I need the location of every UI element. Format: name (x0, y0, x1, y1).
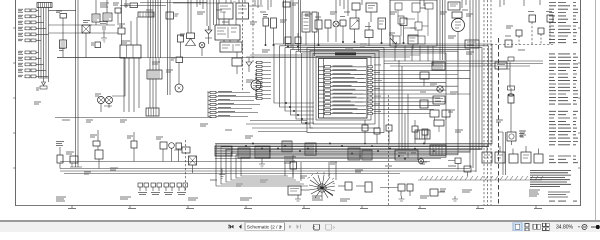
resistor R3 (285, 37, 291, 47)
wire pair down right (499, 132, 506, 175)
ring bus loop 2 (221, 46, 489, 184)
control unit A6 (215, 19, 240, 40)
ring rect 7 (307, 48, 384, 133)
connector block XB3 (255, 146, 270, 158)
connector block XB8 (430, 145, 446, 155)
component row mid-bottom B24 (422, 129, 428, 144)
junction dots bus band (245, 102, 425, 160)
horn H1 (180, 0, 196, 46)
note text right mid (520, 131, 526, 137)
connector block XB7 (362, 150, 372, 160)
switch S21 (325, 20, 331, 42)
text label bm1 (284, 157, 296, 163)
connector header X1 (37, 3, 52, 8)
switch row S9 (18, 63, 44, 66)
dashed crosslink (491, 44, 553, 46)
connector pair XP4 (177, 183, 188, 195)
relay K5 (60, 40, 67, 58)
switch row S2 (18, 15, 41, 18)
wire column left of horn (168, 0, 171, 95)
switch row S1 (18, 9, 39, 12)
prev page button (239, 225, 242, 229)
connector X31 (356, 182, 372, 192)
sensor G10 (380, 184, 413, 196)
relay K8 (236, 0, 249, 19)
ground G22 (295, 195, 301, 201)
facing mode button (533, 224, 540, 229)
ECU pin rows (319, 59, 367, 119)
relay K2 (92, 14, 100, 25)
diode D4 (118, 24, 125, 45)
fuse F14 (178, 35, 184, 57)
cylinder sensor G8 (508, 88, 514, 125)
band drop wires to splice (285, 162, 336, 181)
relay K3 (103, 13, 112, 25)
bottom connector band bus (60, 144, 492, 162)
component block B3 (82, 21, 90, 58)
ring bus loop 6 (241, 53, 446, 176)
sensor cluster LB2 (90, 130, 103, 169)
ring bus loop 2 left edge (280, 46, 315, 107)
switch row S8 (18, 57, 41, 60)
ladder wires right of ECU (372, 71, 470, 114)
top link wires (120, 2, 263, 6)
ECU main box U1 (319, 59, 368, 119)
wire verticals mid top (336, 0, 348, 42)
connector X21 hatched (415, 130, 430, 139)
fuse panel top right F20 (390, 0, 437, 46)
ECU right stub pins (368, 66, 373, 115)
lamp E8 (437, 86, 443, 92)
motor M3 (175, 84, 183, 92)
connector X20 hatched (432, 62, 445, 70)
lamp E5 (199, 42, 205, 56)
sensor G11 (430, 189, 446, 196)
top edge stubs (197, 0, 540, 10)
connector X5 hatched (147, 58, 162, 79)
wire tall left pair (76, 0, 79, 167)
transistor Q2 (389, 33, 396, 48)
relay LB4 (156, 137, 174, 162)
relay K9 (220, 40, 242, 52)
viewer separator line (0, 220, 600, 222)
valve Y2 (350, 18, 359, 42)
component row mid-bottom B20 (362, 120, 368, 143)
relay cluster BM2 (290, 155, 297, 177)
single page mode button (active) (513, 223, 522, 231)
fuse panel drops (395, 46, 433, 66)
small comps right of fan (448, 158, 461, 170)
wire links left bus to center (49, 10, 119, 33)
right window edge line (595, 0, 596, 220)
chassis dashed center-bottom (388, 95, 390, 205)
lamp cluster E1 (95, 94, 105, 112)
top small boxes central (283, 2, 298, 7)
svg-text:34.80%: 34.80% (556, 225, 574, 231)
wire risers to box row (487, 146, 539, 154)
ring rect 9 (313, 54, 375, 125)
fuse F22 (420, 72, 429, 86)
wire junction row (90, 24, 115, 26)
distribution bus extra wires (246, 56, 410, 58)
continuous facing mode button (543, 223, 550, 230)
connector pair XP1 (138, 183, 149, 195)
sensor B8 (340, 17, 346, 43)
sensor B15 (538, 28, 544, 45)
motor M4 (452, 19, 465, 61)
viewer toolbar background (0, 222, 600, 232)
ECU title bar (335, 52, 356, 55)
sensor LB5 (176, 143, 182, 162)
relay K13 (452, 12, 462, 18)
trunk dashed C3 (490, 0, 492, 205)
relay K7 (218, 0, 233, 19)
ring bus loop 6 left edge (302, 53, 315, 123)
long bottom crosslink wires (60, 169, 476, 174)
fuel pump M2 (246, 72, 261, 98)
connector above G8 (508, 57, 514, 61)
module A9 (400, 18, 407, 44)
junction dots row (265, 41, 405, 48)
sheet left border (15, 0, 17, 206)
harness splice fan W1 (308, 172, 336, 199)
connector pair XP3 (164, 183, 175, 195)
sensor B9 (365, 22, 373, 46)
ring bus loop 4 (231, 49, 470, 180)
lamp E9 (333, 21, 339, 27)
central feed wire pair 2 (291, 0, 293, 49)
wire right single (507, 62, 510, 88)
top distribution bus wires (57, 55, 420, 58)
module A10 (408, 35, 418, 49)
trunk dashed C1 (483, 0, 485, 205)
component row mid-bottom B21 (374, 128, 380, 144)
connector block XB6 (348, 148, 360, 160)
wire verticals top mid (207, 0, 217, 30)
module A17 (495, 62, 507, 69)
ring bus loop 4 left edge (291, 49, 315, 115)
top strip module A20 (115, 8, 121, 25)
wire bus center-left (148, 0, 161, 58)
dashed boundary LB (185, 140, 187, 190)
lamp on band E12 (418, 158, 423, 163)
crossed box LB6 (189, 156, 197, 173)
sensor B13 (546, 12, 553, 45)
connector block XB2 (238, 148, 250, 158)
ring rect 10 (316, 57, 371, 121)
small box above cylinder (508, 86, 515, 90)
central feed wire pair 3 (299, 0, 301, 53)
sheet bottom border (16, 205, 581, 207)
sensor pair B5 (263, 15, 269, 46)
page combo box (245, 223, 285, 230)
switch row S6 (18, 39, 41, 42)
sensor cluster LB1 (56, 142, 64, 169)
right small box row RB (482, 152, 543, 163)
pin feed row group left of rings (255, 61, 271, 99)
sensor cluster bottom-left G5 (66, 152, 82, 167)
connector block XB1 (215, 146, 232, 156)
connector X30 (338, 182, 352, 190)
ring bus loop 3 left edge (285, 48, 314, 111)
next page button (disabled) (289, 225, 292, 229)
wires X5 down (150, 79, 156, 108)
module A14 (433, 96, 445, 104)
zoom out button (582, 225, 587, 230)
ring bus loop 5 left edge (296, 51, 314, 119)
ground G21 (259, 158, 265, 168)
ground G23 (399, 196, 405, 201)
module A8 (378, 18, 386, 43)
component row mid-bottom B23 (412, 120, 418, 144)
wire list text column (549, 3, 578, 202)
component row mid-bottom B22 (386, 125, 392, 144)
sensor S30 on dashed (505, 36, 512, 47)
module boxes above valve (352, 3, 377, 22)
switch row S10 (18, 69, 46, 72)
top feed stubs cluster (96, 0, 137, 45)
switch row S3 (18, 21, 44, 24)
ECU right outside labels (374, 65, 382, 112)
chassis dashed line 1 (242, 0, 244, 90)
connector strip X41 (312, 12, 317, 56)
node KLT label (59, 49, 65, 51)
top edge labels (146, 8, 468, 12)
component header A3 (138, 12, 154, 17)
ring bus loop 1 left edge (274, 44, 314, 103)
ring bus loop 5 (236, 51, 458, 178)
diode D6 (205, 26, 212, 44)
chassis dashed line 2 (252, 0, 254, 62)
capacitor C2 (100, 22, 108, 43)
sensor B14 (516, 30, 522, 45)
module A12 (465, 40, 479, 48)
reservoir B10 (232, 52, 242, 74)
text labels bottom row (56, 190, 472, 201)
scattered label smudges (34, 12, 525, 186)
diode D8 (246, 58, 252, 72)
pin ladder A9 lower-left (208, 91, 260, 118)
top strip labels left (100, 3, 119, 7)
switch S15 (171, 57, 183, 84)
connector block XB4 (282, 141, 292, 152)
right bus horizontals (384, 61, 543, 66)
title block small text (529, 190, 570, 197)
ground G20 (219, 169, 225, 179)
sensor pair B6 (271, 18, 277, 45)
title block text lines (530, 171, 571, 187)
central feed wire pair 1 (284, 0, 286, 46)
lamp cluster E2 (104, 97, 113, 109)
module LB7 (174, 147, 190, 153)
small comp X33 (464, 166, 471, 176)
ring bus loop 3 (226, 48, 482, 182)
under-border zone labels (68, 208, 542, 210)
ground G24 (452, 196, 458, 201)
fuse F12 (91, 42, 101, 48)
splice label box W1a (288, 186, 309, 195)
trunk dashed C2 (487, 0, 489, 205)
fuse F10 (56, 11, 67, 40)
svg-text:Schematic (2 / 2: Schematic (2 / 2 (247, 225, 282, 231)
wire bus left (39, 8, 49, 83)
ring rect 8 (310, 51, 379, 129)
ring bottom extensions left (246, 121, 313, 132)
wire KLT run (57, 58, 125, 97)
relay box K12 (448, 2, 460, 10)
sensor B12 (528, 12, 536, 45)
continuous mode button (525, 224, 529, 231)
junction box JB2 (395, 150, 418, 160)
switch row S11 (18, 75, 49, 78)
hatch fence row (418, 176, 543, 180)
pump with circle P2 (507, 125, 525, 145)
connector block XB5 (305, 143, 316, 155)
connector pair XP2 (151, 183, 162, 195)
ECU pin column inner border (323, 59, 325, 119)
wires K10 down (124, 58, 139, 112)
band junction dots extra (261, 143, 435, 160)
switch S20 (315, 12, 322, 45)
connector X6 (146, 108, 159, 116)
trunk wires B (470, 0, 479, 172)
trunk wires A (440, 0, 445, 60)
ring bus loop 1 outermost (216, 44, 492, 186)
module cluster A16 (430, 110, 450, 132)
zoom dropdown caret (578, 226, 580, 228)
switch LB3 (127, 132, 137, 162)
trunk drop wires (399, 60, 408, 150)
module A2 (124, 3, 138, 8)
module A4 (166, 12, 179, 19)
previous view icon (313, 224, 320, 230)
first page button (228, 225, 233, 229)
sheet right border (580, 0, 582, 206)
resistor R4 (295, 33, 301, 47)
connector X2 bottom of bus (36, 78, 49, 90)
relay box K10 (120, 41, 141, 58)
switch row S5 (18, 33, 49, 36)
chassis heavy dashed line (498, 38, 500, 205)
connector strip X40 (302, 12, 310, 45)
module A15 (420, 100, 428, 108)
zoom slider (591, 226, 600, 228)
last page button (disabled) (297, 225, 301, 229)
switch row S7 (18, 51, 39, 54)
long collector wire left (55, 117, 212, 119)
next view icon (disabled) (326, 224, 335, 230)
switch row S4 (18, 27, 46, 30)
border zone tick marks (13, 28, 581, 208)
